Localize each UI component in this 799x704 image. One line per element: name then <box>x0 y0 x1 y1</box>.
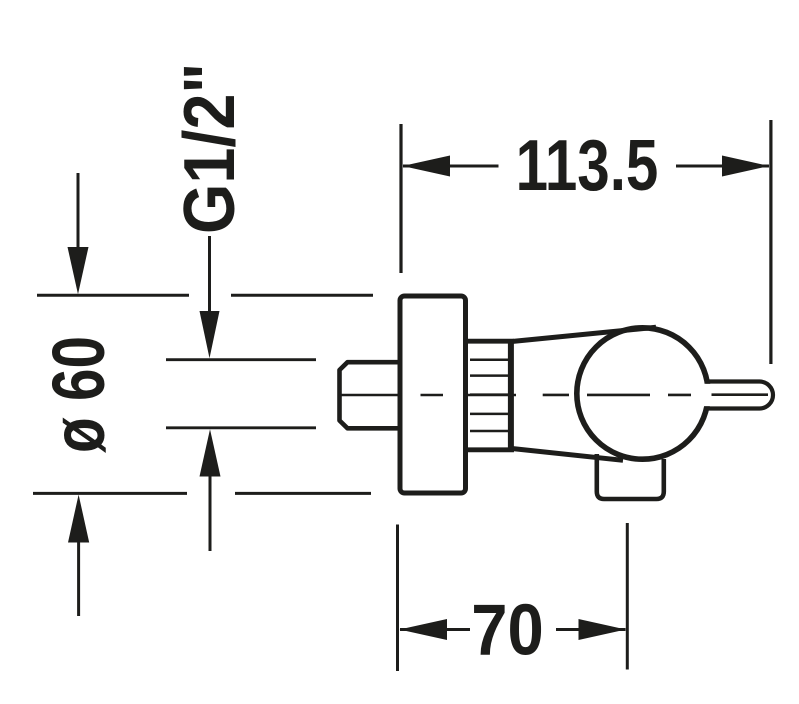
G1/2 bottom leader line <box>166 426 316 429</box>
centerline dash before circle <box>543 394 569 397</box>
valve body top edge <box>513 327 656 341</box>
dim 70 extension line left <box>396 525 399 672</box>
hex fitting <box>340 362 402 428</box>
G1/2 arrow up <box>200 429 221 476</box>
ribbed section bottom line <box>467 447 514 452</box>
dia60 arrow up <box>68 495 89 543</box>
svg-text:G1/2": G1/2" <box>169 63 250 234</box>
dim 113.5 extension line right <box>769 120 772 364</box>
dim 113.5 line left part <box>403 165 499 168</box>
dia60 lower arrow shaft <box>77 542 80 616</box>
dim 113.5 arrow left <box>403 156 451 177</box>
handle lever mask over circle <box>698 384 762 406</box>
centerline in handle <box>712 393 769 396</box>
dim 70 line left part <box>400 628 470 631</box>
dia60 arrow down <box>68 247 89 294</box>
centerline dash in ribbed section <box>466 394 516 397</box>
handle lever <box>704 382 773 409</box>
svg-text:113.5: 113.5 <box>516 125 659 205</box>
G1/2 top leader line <box>166 358 316 361</box>
centerline dash inside circle short <box>668 394 691 397</box>
valve body bottom edge <box>513 449 623 461</box>
svg-text:ø 60: ø 60 <box>39 336 121 453</box>
dim 113.5 extension line left <box>399 124 402 273</box>
centerline dash in flange <box>421 394 444 397</box>
ribbed section rib lines <box>470 360 508 431</box>
dim 70 arrow left <box>400 619 448 640</box>
knob circle <box>577 328 708 459</box>
wall flange <box>400 296 466 493</box>
dim 70 arrow right <box>579 619 626 640</box>
dim 70 line right part <box>556 628 626 631</box>
dia60 bottom leader line <box>33 492 371 495</box>
G1/2 arrow down <box>200 311 220 358</box>
centerline dash inside circle long <box>587 394 650 397</box>
ribbed section top line <box>467 339 514 344</box>
G1/2 lower arrow shaft <box>209 475 212 551</box>
dim 70 extension line right <box>626 523 629 670</box>
svg-text:70: 70 <box>471 589 543 670</box>
G1/2 upper arrow shaft <box>208 236 211 312</box>
dia60 top leader line <box>37 294 373 297</box>
dim 113.5 arrow right <box>722 156 769 177</box>
centerline dash in hex <box>341 394 399 397</box>
dia60 upper arrow shaft <box>77 173 80 248</box>
outlet stub <box>597 454 664 499</box>
dim 113.5 line right part <box>676 165 769 168</box>
ribbed section right edge <box>508 339 514 452</box>
